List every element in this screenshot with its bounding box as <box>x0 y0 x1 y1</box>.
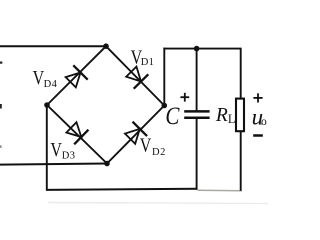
wire top AC input <box>0 45 106 47</box>
diode VD1 <box>124 65 148 89</box>
wire bridge branch top-left (VD4 branch) <box>47 46 106 105</box>
node capacitor top rail junction <box>194 46 200 52</box>
svg-text:o: o <box>261 116 267 128</box>
wire RL bottom lead <box>240 132 242 191</box>
node top junction <box>103 43 109 49</box>
svg-text:L: L <box>228 112 236 126</box>
svg-text:V: V <box>140 134 152 156</box>
label RL <box>215 105 236 126</box>
resistor RL box <box>236 99 244 132</box>
svg-text:D4: D4 <box>44 79 58 90</box>
diode VD2 <box>123 122 147 146</box>
left edge scan tick 3 <box>0 145 2 148</box>
node left junction <box>44 102 50 108</box>
label uo <box>252 104 267 129</box>
wire bottom rail dark part <box>46 189 198 190</box>
plus sign uo <box>253 93 262 102</box>
svg-text:D1: D1 <box>141 57 154 68</box>
node bottom junction <box>104 161 110 167</box>
left edge scan tick 2 <box>0 104 2 109</box>
svg-text:D3: D3 <box>62 150 76 161</box>
wire bridge branch top-right (VD1 branch) <box>106 46 164 105</box>
wire bridge branch bottom-right (VD2 branch) <box>107 106 164 164</box>
wire capacitor bottom lead <box>196 119 198 190</box>
left edge scan tick 1 <box>0 62 2 64</box>
diode VD3 <box>64 120 88 144</box>
wire left node down <box>46 105 48 190</box>
node right junction <box>162 103 168 109</box>
svg-text:D2: D2 <box>152 147 166 158</box>
wire right node up <box>163 48 165 106</box>
wire RL top lead <box>240 49 242 99</box>
wire bottom rail faint part <box>198 189 242 192</box>
svg-text:V: V <box>33 66 45 88</box>
label VD1 <box>131 46 154 68</box>
wire bottom AC input <box>0 164 107 165</box>
wire top rail <box>163 48 241 50</box>
diode VD4 <box>64 65 88 89</box>
wire bridge branch bottom-left (VD3 branch) <box>47 105 107 164</box>
svg-text:V: V <box>50 138 62 160</box>
label VD4 <box>33 66 58 90</box>
svg-text:C: C <box>165 101 180 129</box>
label VD3 <box>50 138 75 161</box>
minus sign uo <box>253 134 263 137</box>
wire capacitor top lead <box>196 49 198 111</box>
label VD2 <box>140 134 166 158</box>
plus sign capacitor <box>180 93 189 102</box>
svg-text:R: R <box>215 105 228 126</box>
capacitor C plates <box>184 110 209 113</box>
bottom edge faint smudge <box>48 203 268 204</box>
